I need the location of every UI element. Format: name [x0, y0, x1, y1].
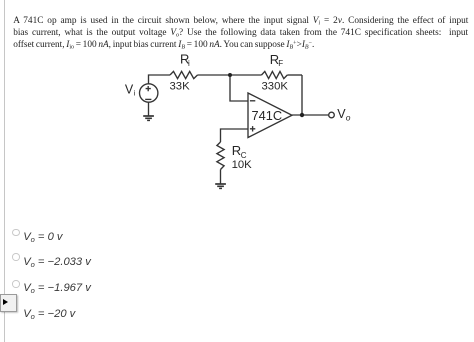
wire node A to RF [230, 74, 262, 76]
op-amp plus input marking [250, 126, 255, 131]
svg-text:F: F [278, 59, 283, 68]
svg-text:i: i [134, 88, 136, 97]
op-amp U1 triangle [248, 93, 292, 138]
output terminal open circle [329, 112, 335, 118]
node A junction dot [228, 73, 232, 77]
wire Rc to ground [220, 170, 222, 185]
wire node A down to inverting input [230, 75, 248, 101]
option text 1 [23, 231, 62, 243]
op-amp minus input marking [250, 100, 255, 102]
wire noninverting input to Rc [221, 129, 249, 142]
source minus sign [145, 98, 151, 100]
svg-text:R: R [232, 143, 241, 158]
svg-text:o: o [346, 113, 351, 123]
option text 4 [23, 308, 75, 320]
wire RF to feedback corner [287, 74, 302, 76]
resistor Rc zigzag vertical [217, 142, 224, 170]
option text 3 [23, 282, 91, 294]
option radio 1 [12, 229, 20, 237]
wire op-amp output to terminal [292, 114, 329, 116]
wire Ri to node A [198, 74, 231, 76]
svg-text:i: i [188, 59, 190, 68]
left pane border line [4, 0, 5, 342]
ground for Rc [215, 184, 226, 188]
navigation play button box [0, 294, 17, 313]
wire source bottom to ground [148, 102, 150, 116]
ground for source Vi [143, 116, 154, 120]
wire feedback vertical to output node [301, 75, 303, 115]
option radio 3 [12, 280, 20, 288]
resistor Ri zigzag [170, 71, 198, 78]
svg-text:10K: 10K [232, 159, 253, 171]
option radio 2 [12, 253, 20, 261]
source Vi circle [140, 84, 158, 102]
svg-text:330K: 330K [262, 81, 289, 93]
svg-text:33K: 33K [170, 81, 191, 93]
output node junction dot [300, 113, 304, 117]
option text 2 [23, 256, 91, 268]
resistor RF zigzag [262, 71, 288, 78]
svg-text:741C: 741C [252, 108, 283, 123]
source plus sign [146, 86, 151, 91]
wire source top to Ri [149, 75, 171, 84]
svg-text:V: V [125, 82, 134, 96]
question text [13, 15, 469, 51]
